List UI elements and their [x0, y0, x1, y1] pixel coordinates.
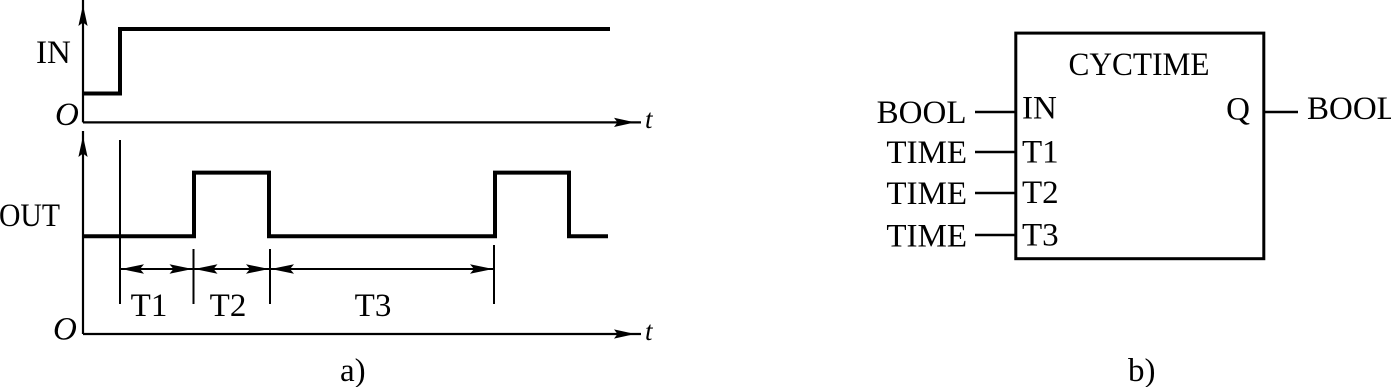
input pin T2 wire	[975, 192, 1017, 195]
svg-text:b): b)	[1128, 353, 1156, 387]
input pin T1 wire	[975, 151, 1017, 154]
tick T2/T3 boundary	[269, 249, 271, 304]
OUT waveform	[83, 173, 608, 237]
svg-text:TIME: TIME	[886, 135, 967, 171]
marker line at IN rising edge	[119, 140, 121, 304]
svg-text:IN: IN	[1022, 91, 1057, 127]
svg-text:T3: T3	[1022, 217, 1059, 253]
svg-text:T1: T1	[1022, 134, 1059, 170]
IN signal y-axis arrow	[78, 0, 87, 122]
input pin IN wire	[975, 111, 1017, 114]
OUT signal y-axis arrow	[78, 131, 87, 334]
tick T1/T2 boundary	[193, 249, 195, 304]
output pin Q wire	[1264, 111, 1298, 114]
svg-text:IN: IN	[36, 35, 71, 71]
input pin T3 wire	[975, 234, 1017, 237]
svg-text:CYCTIME: CYCTIME	[1069, 47, 1210, 83]
dimension arrow T1	[121, 264, 193, 273]
svg-text:O: O	[53, 312, 77, 348]
svg-text:OUT: OUT	[0, 198, 60, 234]
dimension arrow T3	[271, 264, 493, 273]
function block CYCTIME outline	[1016, 33, 1264, 259]
svg-text:BOOL: BOOL	[877, 95, 967, 131]
dimension arrow T2	[195, 264, 270, 273]
svg-text:TIME: TIME	[886, 218, 967, 254]
svg-text:TIME: TIME	[886, 176, 967, 212]
OUT time axis	[83, 329, 641, 338]
tick T3 end	[493, 245, 495, 304]
IN time axis	[83, 118, 641, 127]
svg-text:T1: T1	[131, 288, 168, 324]
svg-text:T2: T2	[210, 288, 247, 324]
svg-text:O: O	[55, 97, 79, 133]
svg-text:Q: Q	[1226, 92, 1250, 128]
svg-text:BOOL: BOOL	[1307, 91, 1391, 127]
svg-text:a): a)	[340, 353, 366, 387]
svg-text:T2: T2	[1022, 175, 1059, 211]
IN waveform	[83, 29, 610, 94]
svg-text:T3: T3	[355, 288, 392, 324]
